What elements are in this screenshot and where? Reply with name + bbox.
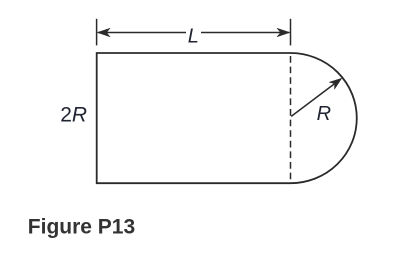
- stadium outline: rectangle with semicircular right cap: [97, 53, 357, 183]
- dashed vertical line at junction of rectangle and semicircle: [290, 56, 292, 183]
- dimension line right segment: [201, 32, 289, 34]
- svg-text:R: R: [317, 103, 331, 125]
- svg-text:Figure P13: Figure P13: [28, 215, 135, 238]
- dimension line left segment: [98, 32, 186, 34]
- svg-text:L: L: [188, 25, 199, 47]
- right extension tick of dimension L: [290, 19, 292, 46]
- right arrowhead of dimension L: [277, 28, 290, 37]
- radius arrow shaft: [291, 83, 336, 117]
- radius arrowhead: [329, 78, 342, 89]
- left extension tick of dimension L: [96, 19, 98, 46]
- svg-text:2R: 2R: [60, 104, 87, 127]
- left arrowhead of dimension L: [97, 28, 110, 37]
